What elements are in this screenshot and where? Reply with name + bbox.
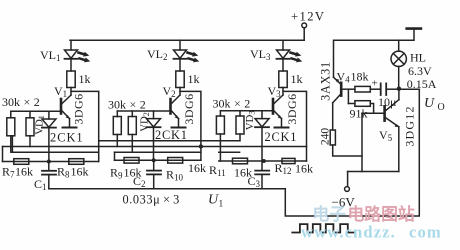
resistor 1k (cell 1) <box>67 71 75 88</box>
LED VL2 <box>174 40 200 71</box>
svg-text:16k: 16k <box>295 162 313 176</box>
node junction C1 <box>47 160 51 164</box>
svg-text:3DG12: 3DG12 <box>403 105 417 146</box>
svg-text:com: com <box>409 223 442 242</box>
capacitor C3 <box>255 161 269 189</box>
resistor 30k b (cell3) <box>236 111 244 141</box>
svg-text:R7: R7 <box>2 165 15 180</box>
svg-text:R9: R9 <box>110 166 123 181</box>
wire base vertical <box>361 113 363 171</box>
svg-text:U: U <box>424 96 435 111</box>
resistor R7 16k <box>14 159 29 165</box>
svg-text:6.3V: 6.3V <box>408 64 432 78</box>
resistor 18k <box>355 86 370 92</box>
svg-text:VL3: VL3 <box>250 47 271 62</box>
LED VL3 <box>277 40 303 71</box>
svg-text:1k: 1k <box>188 72 200 86</box>
svg-text:3DG6: 3DG6 <box>285 93 299 124</box>
svg-text:VD1: VD1 <box>33 115 46 135</box>
wire stub1 left drop <box>11 136 13 152</box>
svg-text:V4: V4 <box>337 70 351 85</box>
resistor 30k a (cell2) <box>113 111 121 147</box>
svg-text:30k×2: 30k×2 <box>108 98 146 112</box>
capacitor 10u <box>381 83 399 95</box>
diode VD2 <box>147 111 161 160</box>
wire stub cell1 collector feedback <box>12 151 98 153</box>
svg-text:VD2: VD2 <box>139 112 152 132</box>
wire emitter/-6V row <box>348 171 399 173</box>
svg-text:16k: 16k <box>188 161 206 175</box>
wire UO output <box>399 88 419 90</box>
wire 91k to base V5 <box>370 104 373 114</box>
resistor R8 16k <box>69 159 84 165</box>
svg-text:C3: C3 <box>248 174 261 189</box>
wire base rail cell 2 <box>117 110 170 112</box>
svg-text:3DG6: 3DG6 <box>72 93 86 124</box>
transistor V5 (NPN 3DG12) <box>385 89 400 172</box>
wire resistor row cell 2 <box>115 159 201 161</box>
wire base rail cell 1 <box>11 110 61 112</box>
svg-text:18k: 18k <box>351 70 369 84</box>
svg-text:R10: R10 <box>166 168 184 183</box>
LED VL1 <box>65 40 91 71</box>
svg-text:1: 1 <box>219 200 224 210</box>
svg-text:240: 240 <box>320 128 332 146</box>
resistor R10 16k <box>168 158 183 164</box>
svg-text:电路图站: 电路图站 <box>348 204 415 224</box>
svg-text:30k×2: 30k×2 <box>213 97 251 111</box>
resistor 1k (cell 2) <box>176 71 184 88</box>
svg-text:30k×2: 30k×2 <box>2 95 40 109</box>
wire 91k drop <box>347 89 349 103</box>
wire bus line A <box>99 140 240 142</box>
wire output stage top <box>334 29 415 78</box>
svg-text:V1: V1 <box>54 84 67 99</box>
resistor 240 <box>330 130 362 156</box>
wire V4 base <box>341 88 355 90</box>
waveform square wave <box>292 224 355 232</box>
svg-text:VL1: VL1 <box>40 48 61 63</box>
wire base rail cell 3 <box>220 110 273 112</box>
wire resistor row cell 3 <box>219 160 307 162</box>
resistor 30k a (cell3) <box>216 111 224 161</box>
wire bus line B <box>3 146 307 148</box>
wire capacitor common rail <box>49 89 420 216</box>
svg-text:2CK1: 2CK1 <box>50 131 84 145</box>
lamp HL <box>391 40 406 88</box>
wire collector branch cell 2 <box>180 91 201 160</box>
svg-text:0.15A: 0.15A <box>407 77 437 91</box>
transistor V1 <box>61 88 77 128</box>
node +12V terminal <box>302 23 307 40</box>
capacitor C2 <box>147 160 161 188</box>
svg-text:O: O <box>438 102 445 113</box>
svg-text:V5: V5 <box>379 128 393 143</box>
svg-text:+: + <box>372 78 378 90</box>
diode VD3 <box>255 111 269 161</box>
node -6V terminal <box>345 172 350 192</box>
svg-text:10μ: 10μ <box>378 95 396 109</box>
svg-text:2CK1: 2CK1 <box>265 130 298 144</box>
transistor V3 <box>273 88 289 128</box>
node junction bus B cell2 <box>199 144 203 148</box>
wire +12V top rail <box>70 39 304 41</box>
resistor R12 16k <box>282 158 295 163</box>
svg-text:电子: 电子 <box>313 204 347 224</box>
svg-text:0.033μ×3: 0.033μ×3 <box>123 193 180 207</box>
resistor 30k b (cell1) <box>26 111 34 146</box>
wire left drop to R7 <box>2 147 4 162</box>
resistor R11 16k <box>233 158 248 164</box>
wire stub2 left drop to R9 <box>114 152 116 160</box>
wire V5 base <box>362 112 385 114</box>
svg-text:VL2: VL2 <box>147 47 168 62</box>
resistor R9 16k <box>124 158 139 164</box>
svg-text:16k: 16k <box>71 165 89 179</box>
capacitor C1 <box>42 162 56 189</box>
resistor 1k (cell 3) <box>279 71 287 88</box>
svg-text:3DG6: 3DG6 <box>182 93 196 124</box>
svg-text:C1: C1 <box>34 177 47 192</box>
diode VD1 <box>42 111 56 162</box>
svg-text:C2: C2 <box>133 174 146 189</box>
svg-text:2CK1: 2CK1 <box>155 128 188 142</box>
svg-text:3AX31: 3AX31 <box>319 61 333 101</box>
svg-text:VD3: VD3 <box>244 111 257 131</box>
node junction C2 <box>152 158 156 162</box>
transistor V4 (PNP 3AX31) <box>333 77 342 130</box>
node lamp junction <box>397 87 401 91</box>
node junction C3 <box>262 159 266 163</box>
svg-text:16k: 16k <box>15 165 33 179</box>
resistor 30k a (cell1) <box>7 111 15 152</box>
svg-text:+12V: +12V <box>291 10 325 24</box>
svg-text:91k: 91k <box>350 107 368 121</box>
wire collector branch cell 1 <box>71 91 99 161</box>
power bar terminal <box>407 27 421 30</box>
svg-text:R8: R8 <box>57 165 70 180</box>
resistor 91k <box>355 101 370 107</box>
svg-text:www.cndzz.: www.cndzz. <box>301 223 396 242</box>
watermark site name <box>301 204 442 242</box>
wire 18k to cap <box>370 88 380 90</box>
resistor 30k b (cell2) <box>128 111 136 152</box>
wire stub cell2 collector feedback <box>115 151 201 153</box>
wire stub cell3 collector feedback <box>219 151 240 153</box>
transistor V2 <box>171 88 186 128</box>
svg-text:R11: R11 <box>209 163 226 178</box>
wire resistor row cell 1 <box>3 161 99 163</box>
svg-text:1k: 1k <box>291 72 303 86</box>
svg-text:U: U <box>208 193 219 208</box>
svg-text:HL: HL <box>410 51 426 65</box>
svg-text:V2: V2 <box>163 84 176 99</box>
svg-text:1k: 1k <box>79 72 91 86</box>
wire collector branch cell 3 <box>283 91 307 161</box>
